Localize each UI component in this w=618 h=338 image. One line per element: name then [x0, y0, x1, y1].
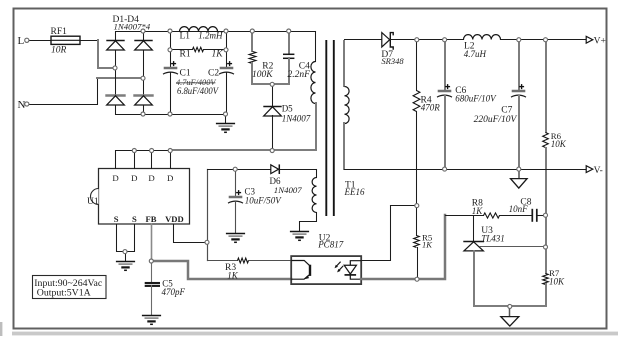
- wire LED cathode to R8 net: [361, 215, 445, 279]
- svg-text:1K: 1K: [227, 270, 239, 280]
- wire R8 row left: [446, 215, 484, 217]
- wire primary top lead: [315, 32, 317, 62]
- pin U1 VDD stub: [174, 225, 208, 243]
- diode D6: [271, 164, 280, 174]
- svg-text:1K: 1K: [472, 206, 484, 216]
- svg-text:1N4007: 1N4007: [282, 114, 311, 124]
- wire FB to C5: [151, 262, 153, 283]
- svg-text:1K: 1K: [212, 50, 224, 60]
- ground output (triangle): [501, 317, 519, 327]
- svg-text:D: D: [131, 173, 137, 183]
- wire C3/D6 row: [208, 169, 271, 171]
- node C6 bottom: [443, 167, 447, 171]
- svg-text:100K: 100K: [252, 70, 273, 80]
- wire V- rail: [345, 169, 587, 171]
- wire R5 upper lead: [416, 206, 418, 236]
- wire D4 anode to bottom rail: [143, 106, 145, 115]
- wire D2 cathode lead: [143, 32, 145, 41]
- svg-text:D: D: [148, 173, 154, 183]
- capacitor C3: [228, 190, 243, 203]
- svg-text:S: S: [132, 214, 137, 224]
- wire secondary ground stem: [518, 169, 520, 178]
- node LED cathode junction: [415, 277, 419, 281]
- node R6 top: [544, 38, 548, 42]
- wire VDD riser: [207, 170, 209, 261]
- svg-text:470pF: 470pF: [162, 287, 186, 297]
- transformer T1 primary winding: [311, 62, 316, 104]
- node C1 top: [168, 29, 172, 33]
- output terminal V-: [586, 166, 593, 173]
- svg-text:TL431: TL431: [481, 233, 505, 243]
- diode D7 (schottky SR348): [382, 33, 393, 50]
- node snubber to D5: [270, 82, 274, 86]
- wire D6 to bias winding: [280, 169, 317, 171]
- capacitor C5: [145, 283, 160, 286]
- wire R4 to LED anode row: [391, 205, 417, 207]
- ground bias winding: [290, 232, 309, 241]
- wire V+ rail: [391, 39, 464, 41]
- wire drain bus black part: [116, 151, 171, 169]
- resistor RF1 (fusible): [51, 36, 80, 44]
- wire R6 lower lead: [545, 148, 547, 247]
- wire R3 row left: [208, 260, 238, 262]
- IC U1 body: [91, 169, 190, 225]
- svg-text:FB: FB: [146, 214, 157, 224]
- ground C5: [142, 316, 161, 325]
- LED of U2: [335, 261, 362, 280]
- pin U1 FB stub: [151, 225, 153, 262]
- capacitor C8: [532, 209, 537, 222]
- node R4 top: [415, 38, 419, 42]
- diode D3: [105, 96, 125, 106]
- ground U1 source: [116, 262, 135, 271]
- page bottom shadow strip: [12, 332, 618, 336]
- pin U1 D2 stub: [134, 151, 136, 169]
- ground C3: [226, 234, 245, 243]
- node C2 bottom / ground tap: [224, 112, 228, 116]
- wire bridge top rail: [116, 32, 316, 41]
- wire aux winding bottom lead: [300, 213, 317, 231]
- ground secondary (triangle): [511, 179, 528, 189]
- wire node to D3: [115, 68, 117, 96]
- svg-text:C2: C2: [208, 69, 219, 79]
- ground primary bus: [216, 124, 235, 133]
- wire D2 anode to node: [143, 51, 145, 79]
- wire C7 branch: [518, 40, 520, 90]
- svg-text:220uF/10V: 220uF/10V: [474, 115, 518, 125]
- node bridge bottom junction: [141, 112, 145, 116]
- node drain bus D5 tap: [270, 149, 274, 153]
- wire R4 lower lead: [416, 112, 418, 206]
- wire D5 anode lead: [272, 116, 274, 151]
- svg-text:R1: R1: [180, 50, 191, 60]
- wire C2 branch upper: [226, 32, 228, 67]
- wire R6 upper lead: [545, 40, 547, 132]
- svg-text:1K: 1K: [422, 239, 433, 249]
- node FB junction: [149, 259, 153, 263]
- inductor L1: [180, 27, 218, 32]
- svg-text:10K: 10K: [551, 139, 567, 149]
- wire C6 branch lower: [444, 96, 446, 169]
- wire C7 branch lower: [518, 96, 520, 169]
- wire output ground stem: [509, 307, 511, 317]
- wire R1 row: [171, 49, 193, 51]
- node R6/C8 junction: [544, 213, 548, 217]
- svg-text:U1: U1: [87, 197, 99, 207]
- terminal L: [25, 38, 29, 42]
- node C4 top: [287, 29, 291, 33]
- resistor R3: [238, 258, 249, 263]
- inductor L2: [464, 35, 501, 40]
- node drain bus j3: [168, 149, 172, 153]
- shunt regulator U3 TL431: [463, 242, 484, 251]
- wire bridge bottom rail: [116, 106, 226, 115]
- wire R7 upper lead: [545, 247, 547, 273]
- node C7 top: [517, 38, 521, 42]
- capacitor C7: [511, 84, 526, 97]
- svg-text:10R: 10R: [51, 46, 67, 56]
- svg-text:680uF/10V: 680uF/10V: [455, 94, 497, 104]
- output terminal V+: [586, 36, 593, 43]
- svg-text:D: D: [167, 173, 173, 183]
- node C2 top: [224, 29, 228, 33]
- wire C3 upper lead: [235, 170, 237, 196]
- transformer T1 secondary winding: [345, 87, 350, 124]
- node anode/ground junction: [508, 304, 512, 308]
- wire C3 lower lead: [235, 202, 237, 233]
- wire FB to opto emitter: [151, 261, 291, 279]
- wire secondary bottom lead: [343, 123, 345, 169]
- wire R8 to C8: [500, 215, 532, 217]
- wire secondary to D7: [345, 39, 382, 41]
- wire C1 branch lower: [170, 73, 172, 115]
- transistor of U2: [291, 261, 310, 280]
- wire C6 branch: [444, 40, 446, 90]
- diode D5: [263, 107, 281, 117]
- node drain bus j1: [132, 149, 136, 153]
- node R2 top: [250, 29, 254, 33]
- wire drain bus gray part: [170, 149, 316, 151]
- svg-text:C7: C7: [501, 105, 512, 115]
- wire TL431 anode path: [474, 251, 546, 306]
- svg-text:V-: V-: [594, 166, 603, 176]
- wire R2 upper lead: [251, 31, 253, 51]
- transformer T1 core: [326, 40, 334, 216]
- wire R4 upper lead: [416, 40, 418, 91]
- wire D1 anode to node: [115, 51, 117, 68]
- svg-text:10nF: 10nF: [509, 204, 528, 214]
- node C1 bottom: [168, 112, 172, 116]
- wire R7 lower lead: [545, 284, 547, 306]
- resistor R2: [249, 52, 256, 64]
- capacitor C2: [219, 61, 234, 74]
- wire secondary top lead: [343, 41, 345, 86]
- svg-text:S: S: [114, 214, 119, 224]
- terminal N: [25, 102, 29, 106]
- node C7 bottom: [517, 167, 521, 171]
- svg-text:10uF/50V: 10uF/50V: [245, 196, 282, 206]
- wire R1 row right: [204, 49, 227, 51]
- wire node to D4: [143, 79, 145, 96]
- svg-text:PC817: PC817: [317, 239, 344, 249]
- node AC-N junction: [141, 76, 145, 80]
- wire divider mid segment: [545, 215, 547, 247]
- wire U1 source pins: [117, 225, 135, 252]
- wire D5 cathode lead: [272, 85, 274, 107]
- wire L net to bridge node: [98, 40, 113, 68]
- node bridge top junction: [141, 29, 145, 33]
- resistor R4: [413, 91, 420, 112]
- svg-text:470R: 470R: [421, 103, 441, 113]
- pin U1 D3 stub: [151, 151, 153, 169]
- svg-text:D5: D5: [282, 103, 293, 113]
- svg-text:L1: L1: [180, 32, 191, 42]
- wire ground stem primary: [225, 115, 227, 123]
- wire V+ rail right: [501, 39, 587, 41]
- wire RF1 to corner: [81, 40, 98, 42]
- wire C8 to node: [537, 215, 546, 217]
- svg-text:SR348: SR348: [381, 56, 404, 66]
- svg-text:10K: 10K: [549, 276, 565, 286]
- resistor R1: [193, 47, 204, 51]
- svg-text:6.8uF/400V: 6.8uF/400V: [177, 86, 219, 97]
- resistor R8: [484, 213, 500, 218]
- node C6 top: [443, 38, 447, 42]
- diode D1: [106, 41, 124, 51]
- wire LED anode drop: [362, 206, 391, 261]
- wire snubber bottom: [252, 83, 289, 85]
- svg-text:VDD: VDD: [165, 214, 184, 224]
- svg-text:EE16: EE16: [344, 187, 365, 197]
- wire R3 row right: [249, 260, 292, 262]
- pin U1 D4 stub: [170, 151, 172, 169]
- wire C1 branch upper: [170, 32, 172, 67]
- wire C5 to ground: [151, 286, 153, 315]
- wire C4 lower lead: [288, 58, 290, 84]
- wire N net to bridge node: [97, 77, 141, 79]
- wire C4 upper lead: [288, 31, 290, 54]
- svg-text:C1: C1: [180, 69, 191, 79]
- node LED anode: [415, 204, 419, 208]
- svg-text:L: L: [18, 35, 25, 47]
- resistor R5: [414, 236, 420, 248]
- node C3 tap: [233, 167, 237, 171]
- wire TL431 ref lead: [480, 246, 546, 248]
- resistor R7: [543, 274, 549, 285]
- svg-text:1.2mH: 1.2mH: [198, 31, 223, 41]
- wire TL431 cathode lead: [473, 216, 475, 242]
- node AC-L junction: [113, 66, 117, 70]
- svg-text:RF1: RF1: [51, 27, 68, 37]
- wire R5 lower lead: [417, 248, 419, 280]
- diode D2: [134, 41, 152, 51]
- resistor R6: [543, 133, 549, 148]
- node R1 right: [224, 48, 228, 52]
- svg-text:D: D: [112, 173, 118, 183]
- transformer T1 bias winding: [312, 178, 316, 213]
- svg-text:2.2nF: 2.2nF: [288, 70, 311, 80]
- capacitor C1: [163, 61, 178, 74]
- svg-text:V+: V+: [594, 36, 606, 46]
- spec box: [33, 276, 107, 299]
- node VDD junction: [205, 240, 209, 244]
- wire primary bottom lead: [315, 103, 317, 150]
- capacitor C4: [283, 54, 294, 58]
- capacitor C6: [437, 84, 452, 97]
- svg-text:Output:5V1A: Output:5V1A: [37, 287, 91, 298]
- wire L to RF1: [30, 40, 52, 42]
- wire source ground stem: [125, 252, 127, 261]
- wire aux winding top lead: [316, 170, 318, 178]
- node source junction: [123, 250, 127, 254]
- svg-text:4.7uH: 4.7uH: [464, 49, 487, 59]
- optocoupler U2 body: [291, 256, 361, 284]
- node R1 left: [168, 48, 172, 52]
- node drain bus j2: [150, 149, 154, 153]
- diode D4: [133, 96, 153, 106]
- wire N to corner: [30, 79, 98, 105]
- wire R2 lower lead: [251, 63, 253, 84]
- node TL431 ref junction: [544, 245, 548, 249]
- wire C2 branch lower: [226, 73, 228, 115]
- svg-text:1N4007: 1N4007: [274, 185, 302, 195]
